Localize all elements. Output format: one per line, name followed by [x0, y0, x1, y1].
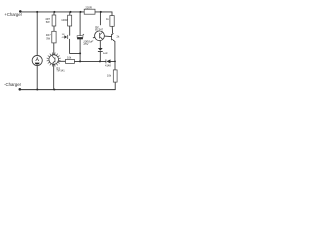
wire meter to bottom rail — [36, 66, 38, 90]
svg-text:10k: 10k — [67, 55, 72, 59]
resistor R 4R7 5W (box1) — [45, 15, 56, 26]
wire 100R to diode D1 — [69, 26, 71, 35]
transistor Q2 BC547 — [95, 25, 105, 41]
wire dot54 to R 4R7 — [53, 12, 55, 15]
resistor R 100R — [61, 15, 71, 26]
wire meter column top — [36, 12, 38, 56]
resistor R 220R (top rail) — [84, 5, 95, 14]
wire 10k to bottom rail — [114, 82, 116, 89]
junction dots bottom rail — [36, 88, 55, 90]
junction dots top rail — [36, 11, 102, 13]
wire diode 4148 to right column — [111, 60, 115, 62]
wire Q2 collector — [99, 12, 101, 31]
wire top-right corner down to 1k — [111, 12, 113, 16]
svg-text:100R: 100R — [61, 18, 67, 22]
wire capacitor bottom lead — [79, 39, 81, 53]
transistor Q1 TIP141 (circle with rays) — [47, 53, 66, 73]
wire base chain Q1 to 10k-h — [59, 60, 66, 62]
wire dot80 to capacitor C1 — [79, 12, 81, 36]
wire D1 down then right to cap junction — [70, 39, 81, 53]
resistor R 10k (bottom right) — [107, 70, 117, 82]
wire Q2 base stub — [93, 36, 95, 39]
wire top rail left — [20, 11, 84, 13]
svg-text:4148: 4148 — [105, 64, 111, 68]
svg-text:TIP141: TIP141 — [56, 69, 65, 73]
wire between box1 and box2 — [53, 26, 55, 31]
svg-text:10k: 10k — [107, 74, 112, 78]
wire LED to chain — [99, 52, 101, 61]
resistor box2 (second 5W resistor) — [46, 31, 65, 43]
svg-text:BC547: BC547 — [95, 28, 103, 32]
svg-text:5W: 5W — [46, 20, 50, 24]
node terminal +Charger — [4, 10, 22, 17]
resistor R 10k (horizontal, base chain) — [66, 55, 75, 63]
transistor Q3 (right, uncircled) — [111, 33, 120, 41]
wire Q1 emitter to bottom rail — [53, 64, 55, 89]
wire Q3 emitter down right column — [114, 41, 116, 61]
svg-text:Led: Led — [103, 51, 108, 55]
node terminal -Charger — [4, 82, 22, 90]
svg-text:5W: 5W — [46, 36, 50, 40]
wire dot70 to R 100R — [69, 12, 71, 15]
wire bottom rail — [20, 89, 115, 91]
svg-text:-Charger: -Charger — [4, 82, 22, 87]
capacitor C1 1000uF 25V — [77, 34, 93, 46]
svg-text:+Charger: +Charger — [4, 12, 22, 17]
wire Q2 emitter to LED — [99, 41, 101, 48]
wire box2 to Q1 collector — [53, 43, 55, 55]
resistor R 1k (top right) — [106, 16, 114, 27]
diode D1 (inline left column) — [64, 35, 68, 39]
svg-text:25V: 25V — [83, 42, 89, 46]
wire Q2 right side to Q3 base — [104, 35, 111, 38]
wire right column chain corner to 10k — [114, 61, 116, 70]
meter M1 (circle with needle) — [32, 55, 42, 65]
wire 1k to Q3 collector — [111, 26, 113, 33]
svg-text:220R: 220R — [85, 5, 91, 9]
diode D3 1N4148 (horizontal in chain) — [105, 59, 111, 67]
wire top rail right of 220R — [95, 11, 112, 13]
wire cap junction down to chain — [79, 53, 81, 61]
junction dots middle — [79, 52, 116, 62]
LED D2 — [98, 48, 108, 55]
wire chain 10k-h to diode 4148 — [74, 60, 105, 62]
